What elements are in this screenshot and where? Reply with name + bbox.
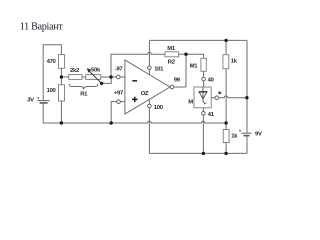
wire meter output with hop over 1k column [219, 96, 247, 98]
wire R2 right to M1 resistor top [179, 54, 204, 58]
svg-text:101: 101 [154, 66, 164, 72]
wire left battery to mid rail [43, 103, 61, 123]
terminal 41 [202, 112, 206, 116]
svg-text:1k: 1k [231, 59, 238, 65]
resistor 1k lower [223, 130, 229, 143]
polarity mark asterisk [218, 91, 221, 94]
svg-text:41: 41 [208, 112, 215, 118]
wire 1k column top [225, 40, 227, 54]
svg-text:9V: 9V [255, 132, 262, 138]
wire node to R2k2 [61, 76, 68, 78]
potentiometer wiper arrow [87, 68, 102, 83]
wire terminal 41 to bottom rail [202, 115, 204, 153]
svg-text:2k2: 2k2 [70, 68, 80, 74]
op-amp U1 triangle [125, 60, 170, 114]
svg-text:OZ: OZ [141, 91, 149, 97]
node junction top rail 1k [224, 39, 227, 42]
svg-text:M1: M1 [167, 46, 176, 52]
node inverting input junction [109, 75, 112, 78]
op-amp minus sign [132, 80, 137, 82]
wire noninverting lead [111, 102, 116, 123]
svg-text:40: 40 [208, 78, 215, 84]
wire R2k2 to R50k [82, 76, 86, 78]
svg-text:M: M [188, 100, 193, 106]
wire R50k to inverting node [101, 76, 117, 78]
svg-text:50k: 50k [91, 68, 101, 74]
node junction meter to right column [245, 96, 248, 99]
wire 1k column middle [225, 69, 227, 130]
svg-text:470: 470 [47, 59, 57, 65]
node junction R2 feedback [184, 53, 187, 56]
wire pin101 lead upper [148, 40, 150, 66]
svg-text:99: 99 [174, 78, 181, 84]
wire terminal 40 to meter box [203, 81, 205, 87]
node junction mid rail 1k column [224, 121, 227, 124]
terminal 101 [148, 66, 152, 70]
wire wiper jog [102, 77, 112, 83]
wire right column top [246, 40, 248, 133]
wire pin100 lead to bottom rail [149, 108, 203, 154]
node junction R100 mid rail [60, 121, 63, 124]
node wiper junction [100, 82, 103, 85]
battery G1 3V [37, 97, 50, 103]
svg-text:100: 100 [47, 88, 57, 94]
wire inverting input lead [120, 76, 125, 78]
potentiometer 50k [86, 75, 101, 80]
wire feedback riser with hop over node101 line [111, 52, 165, 77]
resistor M1 shunt [201, 58, 206, 71]
svg-text:1k: 1k [231, 133, 238, 139]
wire bottom rail right part [203, 152, 247, 154]
wire top-left from battery branch to R470 branch [43, 45, 61, 100]
wire meter box to terminal 41 [202, 108, 204, 112]
wire meter right terminal lead [211, 97, 215, 99]
resistor 2k2 [69, 75, 82, 80]
resistor R100 [59, 85, 65, 101]
svg-text:R1: R1 [80, 92, 88, 98]
meter M box [194, 87, 211, 108]
svg-text:M1: M1 [190, 64, 199, 70]
wire mid rail segment B with hop over node100 line [111, 121, 226, 123]
svg-text:+97: +97 [114, 91, 124, 97]
svg-text:3V: 3V [27, 98, 34, 104]
resistor 1k upper [223, 55, 229, 69]
terminal -97 [117, 75, 121, 79]
terminal 40 [202, 77, 206, 81]
terminal 100 [148, 104, 152, 108]
svg-text:100: 100 [154, 105, 164, 111]
wire output lead [174, 86, 186, 88]
terminal 99 output [170, 85, 174, 89]
wire right column bottom [246, 136, 248, 154]
resistor R2 [165, 52, 179, 57]
wire feedback column R2 to output [185, 54, 187, 87]
node noninverting mid rail junction [110, 121, 113, 124]
node junction 1k bottom rail [224, 152, 227, 155]
wire noninverting circle to opamp [120, 101, 125, 103]
wire mid rail segment A [61, 122, 111, 124]
svg-text:11 Варіант: 11 Варіант [20, 21, 64, 32]
wire pin101 lead lower [148, 69, 150, 74]
wire 1k column bottom [225, 143, 227, 154]
meter M internal rectifier symbol [198, 87, 207, 104]
wire R470 to node junction [60, 68, 62, 85]
brace R1 group [69, 84, 98, 90]
svg-text:R2: R2 [168, 59, 176, 65]
op-amp plus sign [132, 97, 138, 102]
svg-text:-97: -97 [115, 67, 124, 73]
terminal meter right [215, 96, 219, 100]
resistor R470 [59, 55, 65, 69]
wire M1 resistor to terminal 40 [203, 71, 205, 77]
terminal +97 [117, 100, 121, 104]
node junction R470-R100-R2k2 [60, 75, 63, 78]
wire R100 to mid rail [60, 101, 62, 123]
wire top rail [149, 39, 247, 41]
node junction 41 bottom rail [202, 152, 205, 155]
battery G2 9V [239, 130, 252, 136]
wire pin100 lead upper [148, 99, 150, 104]
